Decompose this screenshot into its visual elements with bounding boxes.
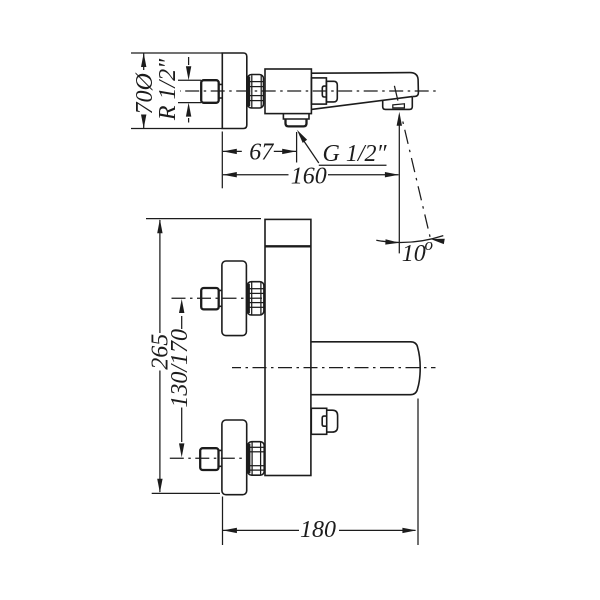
bottom handle: knurled nut [248, 442, 265, 476]
dim 67 [223, 149, 296, 154]
top handle: square nut [201, 288, 219, 309]
dim 70Ø: top extension line [131, 52, 222, 54]
svg-text:10: 10 [402, 241, 426, 267]
dim 130/170: dimension line with arrows [179, 299, 184, 457]
centerline (top view horizontal axis) [180, 90, 440, 92]
diverter knob cap (bottom view) [327, 410, 338, 432]
svg-text:G 1/2″: G 1/2″ [323, 141, 388, 167]
dim R1/2: arrows [186, 57, 191, 123]
dim 265: top extension line [146, 218, 261, 220]
bottom handle: flange [222, 420, 247, 495]
top handle centerline [172, 297, 266, 299]
angle arc with arrows [376, 236, 444, 246]
spout cylinder (bottom view) [311, 342, 420, 395]
bottom handle: stub [219, 450, 222, 466]
inlet square nut (top view) [201, 80, 219, 103]
outlet aerator slot (top view) [393, 104, 405, 108]
top handle: knurled nut [247, 282, 264, 315]
extension line at diverter axis [296, 132, 298, 163]
dim 70Ø: bottom extension line [131, 128, 222, 130]
cartridge cap (top view) [326, 81, 337, 102]
wall flange plate (top view) [222, 53, 247, 129]
spout outline (top view) [311, 73, 418, 97]
leader arrow for G 1/2 [295, 128, 387, 165]
dim 180: left extension line [222, 497, 224, 546]
vertical reference line at outlet with up arrow [397, 112, 402, 254]
main body (bottom view) [265, 219, 311, 475]
10-degree tilted dash-dot line [394, 86, 431, 243]
svg-text:130/170: 130/170 [167, 329, 193, 408]
valve body (top view) [265, 69, 311, 114]
diverter cup / G1/2 outlet (top view) [286, 119, 307, 126]
knurled connector nut (top view) [248, 75, 264, 109]
dim 265: dimension line with arrows [157, 219, 162, 493]
spout underside line (top view) [311, 97, 412, 110]
body cap line (bottom view) [265, 245, 311, 247]
dim 180: right extension line [417, 399, 419, 546]
spout centerline (bottom view) [232, 367, 436, 369]
top handle: flange [222, 261, 247, 336]
bottom handle centerline [170, 457, 250, 459]
diverter knob tab (bottom view) [322, 416, 326, 426]
dim 160 [223, 172, 399, 177]
cartridge connector block (top view) [311, 78, 326, 104]
diverter collar under body (top view) [283, 114, 309, 119]
svg-text:o: o [425, 235, 434, 254]
svg-text:R 1/2″: R 1/2″ [155, 58, 181, 121]
dim R1/2: top extension line [178, 79, 201, 81]
dim R1/2: bottom extension line [178, 102, 201, 104]
spout outlet box (top view) [383, 97, 413, 110]
diverter knob base (bottom view) [311, 408, 326, 434]
extension line from wall plane down (top view) [221, 132, 223, 189]
dim 180: dimension line with arrows [223, 528, 417, 533]
top handle: stub [219, 290, 222, 306]
svg-text:180: 180 [300, 517, 336, 543]
svg-text:67: 67 [249, 140, 274, 166]
bottom handle: square nut [200, 448, 218, 470]
svg-text:160: 160 [291, 164, 327, 190]
dim 70Ø: dimension line with arrows [141, 53, 146, 129]
inlet stub (top view) [219, 84, 222, 98]
cartridge clip (top view) [322, 86, 327, 97]
dim 265: bottom extension line [152, 492, 220, 494]
